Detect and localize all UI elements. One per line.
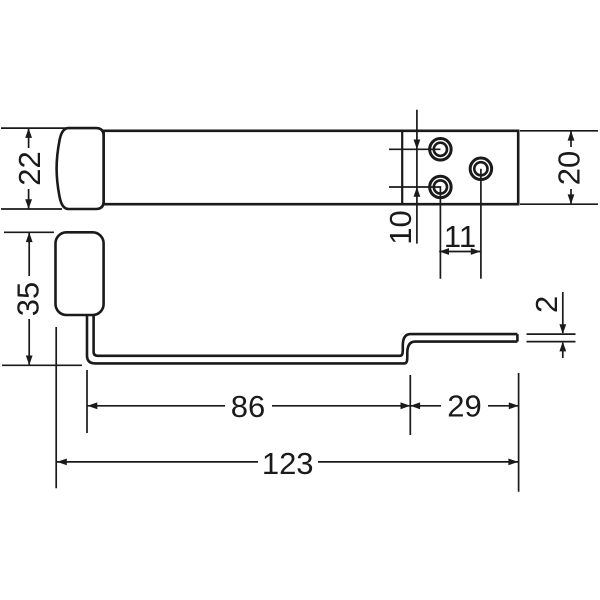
dimension 86: arrowheads — [88, 402, 411, 409]
svg-text:2: 2 — [529, 296, 564, 313]
dimension 22: extension lines — [1, 128, 66, 209]
svg-text:20: 20 — [552, 151, 587, 185]
dimension 29: dimension line — [410, 405, 518, 407]
dimension 10: dimension line — [416, 110, 418, 244]
dimension 29: extension lines — [410, 373, 518, 492]
text 20 (rotated) — [556, 147, 583, 189]
dimension 22: arrowheads — [25, 128, 32, 209]
dimension 20: extension lines — [520, 131, 598, 204]
dimension 2: arrowheads (outside, pointing inward) — [559, 324, 566, 351]
dimension 2: dimension line segments — [562, 292, 564, 358]
text 22 (rotated) — [16, 148, 43, 189]
hole H3 centerline — [480, 169, 482, 279]
text 35 (rotated) — [14, 276, 42, 319]
svg-text:123: 123 — [262, 446, 314, 481]
dimension 86: extension line (left) — [86, 370, 88, 433]
svg-text:10: 10 — [383, 210, 418, 244]
dimension 123: extension line (left) — [55, 327, 57, 488]
dimension 123: dimension line — [57, 461, 518, 463]
dimension 2: extension lines — [527, 334, 576, 342]
svg-text:35: 35 — [11, 282, 46, 316]
hole H3 — [470, 158, 492, 180]
text 29 — [441, 390, 488, 422]
svg-text:22: 22 — [12, 151, 47, 185]
side view: sheet right end — [516, 334, 519, 342]
dimension 20: arrowheads — [568, 131, 575, 204]
hole H2 centerline — [389, 187, 440, 279]
dimension 86: dimension line — [88, 405, 411, 407]
text 86 — [225, 389, 272, 422]
dimension 29: arrowheads — [410, 402, 518, 409]
dimension 123: arrowheads — [57, 459, 518, 466]
dimension 10: arrowheads (outside, pointing inward) — [414, 140, 421, 197]
side view: handle rounded rectangle — [56, 232, 104, 315]
dimension 35: dimension line — [28, 232, 30, 365]
top view: bar body outline — [104, 131, 519, 204]
dimension 11: arrowheads — [439, 248, 480, 255]
svg-text:29: 29 — [447, 389, 481, 424]
hole H2 — [430, 176, 452, 198]
text 123 — [258, 446, 318, 480]
top view: fold (bend) line — [401, 131, 403, 204]
top view: rounded end cap — [57, 128, 104, 209]
side view: bent sheet inner line (right riser to top edge, step, upper top edge) — [94, 314, 518, 356]
dimension 20: dimension line — [570, 131, 572, 204]
svg-text:86: 86 — [231, 389, 265, 424]
hole H1 centerline — [389, 148, 440, 150]
hole H1 — [430, 139, 452, 161]
dimension 22: dimension line — [28, 128, 30, 209]
side view: bent sheet outer line (left riser to bottom edge, step, upper bottom edge) — [87, 314, 517, 363]
dimension 35: arrowheads — [26, 232, 33, 365]
svg-text:11: 11 — [444, 219, 476, 254]
dimension 11: dimension line — [439, 251, 480, 253]
dimension 35: extension lines — [2, 232, 82, 365]
